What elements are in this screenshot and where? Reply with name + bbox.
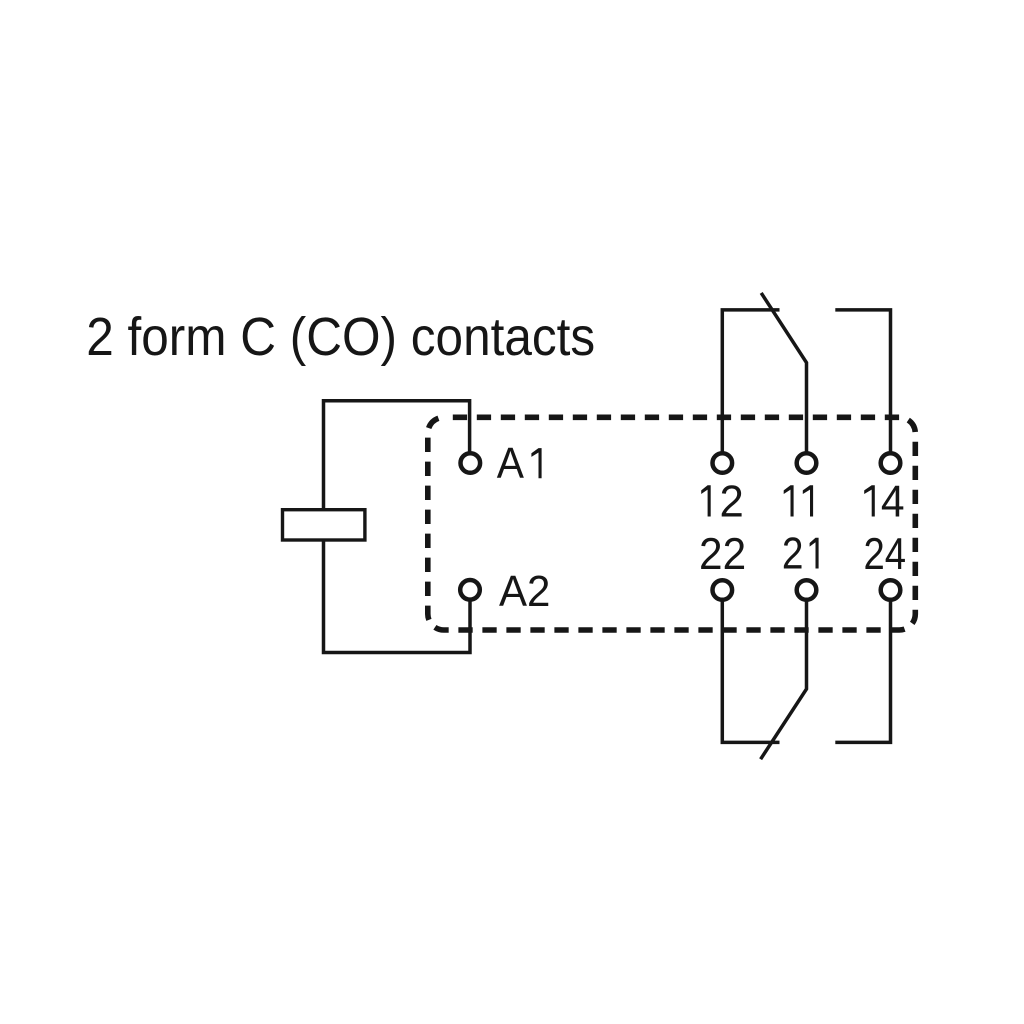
label 12 <box>701 485 711 516</box>
terminal 11 <box>797 453 817 473</box>
wire: coil bottom to A2 <box>324 542 471 653</box>
label 11 <box>784 485 794 516</box>
relay coil <box>283 510 365 540</box>
wire: pin 12 lead up with NC bar <box>722 310 779 453</box>
label 14 <box>864 485 875 516</box>
terminal A2 <box>460 580 480 600</box>
wire: pin 24 lead down with NO bar <box>835 601 890 743</box>
svg-text:4: 4 <box>881 478 905 527</box>
relay outline (dashed box) <box>428 417 916 630</box>
svg-text:22: 22 <box>699 530 746 579</box>
wire: pin 22 lead down with NC bar <box>722 601 779 743</box>
wire: coil top to A1 <box>324 401 470 508</box>
svg-text:A2: A2 <box>499 568 550 616</box>
wire: pin 14 lead up with NO bar <box>835 310 890 453</box>
switch arm pin 11 (common, top pole) <box>761 293 806 453</box>
svg-text:A: A <box>497 440 524 488</box>
terminal 14 <box>881 453 901 473</box>
svg-text:2: 2 <box>720 478 744 527</box>
terminal 21 <box>797 580 817 600</box>
terminal 24 <box>881 580 901 600</box>
svg-text:2: 2 <box>782 530 804 579</box>
svg-text:2 form C (CO) contacts: 2 form C (CO) contacts <box>86 307 595 367</box>
switch arm pin 21 (common, bottom pole) <box>761 601 807 760</box>
svg-text:24: 24 <box>864 530 907 579</box>
terminal 12 <box>713 453 733 473</box>
terminal A1 <box>461 453 481 473</box>
terminal 22 <box>713 580 733 600</box>
